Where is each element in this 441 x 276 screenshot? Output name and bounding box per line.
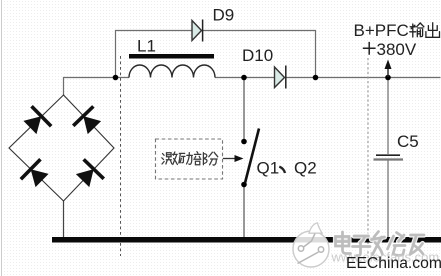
svg-text:Q2: Q2 (294, 159, 317, 178)
svg-text:C5: C5 (397, 132, 419, 151)
svg-text:380V: 380V (377, 40, 417, 59)
ground bar (52, 237, 441, 243)
svg-text:D10: D10 (242, 46, 273, 65)
wire D10 to right edge (286, 77, 441, 79)
wire switch branch lower (243, 185, 245, 238)
capacitor C5 (376, 154, 400, 156)
node: L1 input junction (113, 75, 119, 81)
bridge diode bottom-left (21, 159, 52, 190)
wire L1 to D10 (215, 77, 275, 79)
label 激励部分 (drawn glyphs) (162, 152, 218, 166)
node: switch/D10 junction (241, 75, 247, 81)
svg-text:B+PFC: B+PFC (354, 21, 409, 40)
switch Q1/Q2 blade (245, 129, 259, 184)
watermark 电子发烧友 (336, 232, 425, 256)
dashed section line right (367, 58, 369, 255)
arrow from drive block to switch (223, 158, 236, 160)
svg-text:Q1: Q1 (257, 159, 280, 178)
输 (410, 24, 416, 37)
bridge rectifier diamond (9, 95, 114, 201)
激 (162, 154, 164, 165)
diode D9 (192, 21, 202, 41)
svg-text:L1: L1 (137, 37, 156, 56)
left page border line (1, 0, 3, 276)
bridge diode bottom-right (73, 159, 104, 190)
node: switch lower contact (241, 182, 247, 188)
wire bridge output to L1 (64, 78, 130, 96)
node: output/C5 junction (385, 75, 391, 81)
inductor L1 core bar (129, 54, 214, 59)
wire C5 branch (387, 78, 389, 238)
dashed box drive block (156, 139, 223, 179)
svg-text:EEChina.com: EEChina.com (346, 255, 441, 272)
出 (426, 23, 440, 38)
分 (209, 152, 218, 165)
watermark logo circle (293, 223, 329, 267)
dashed section line left (120, 56, 122, 256)
output arrow up (387, 62, 389, 77)
node: switch upper contact (241, 139, 247, 145)
wire switch branch upper (243, 78, 245, 142)
inductor L1 coil (129, 65, 215, 78)
svg-text:D9: D9 (213, 6, 235, 25)
node: D9/D10 cathode junction (313, 75, 319, 81)
wire top loop (D9 branch) (116, 31, 316, 78)
wire bridge bottom to ground (63, 201, 65, 237)
label +380V (363, 42, 376, 55)
励 (179, 153, 185, 163)
部 (194, 152, 201, 165)
diode D10 (275, 67, 285, 88)
bridge diode top-right (73, 106, 104, 137)
bridge diode top-left (20, 106, 51, 137)
